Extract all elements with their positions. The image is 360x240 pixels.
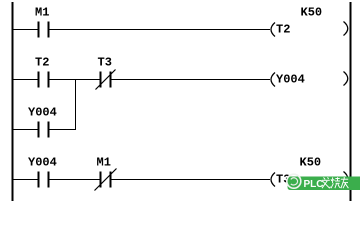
contact M1 (NO): [39, 22, 49, 38]
coil T3 right paren: [344, 172, 348, 186]
contact T3 slash: [96, 70, 116, 90]
rung 3 wire middle: [50, 179, 100, 181]
svg-text:T3: T3: [98, 56, 112, 70]
rung 3 wire left: [13, 179, 38, 181]
svg-text:Y004: Y004: [28, 106, 57, 120]
contact T3 (NC): [101, 72, 111, 88]
rung 2 wire middle: [50, 79, 100, 81]
contact Y004 branch (NO): [39, 122, 49, 138]
contact T2 (NO): [39, 72, 49, 88]
contact Y004 (NO): [39, 172, 49, 188]
watermark CJK glyph 烧: [331, 177, 340, 188]
svg-text:K50: K50: [301, 6, 323, 20]
svg-text:M1: M1: [35, 6, 49, 20]
coil T2 left paren: [271, 23, 275, 37]
watermark CJK glyph 发: [322, 177, 330, 188]
svg-text:K50: K50: [300, 156, 322, 170]
rung 3 wire right: [112, 179, 271, 181]
rung 1 wire right: [50, 29, 271, 31]
branch vertical wire: [75, 80, 77, 131]
rung 1 wire left: [13, 29, 38, 31]
svg-text:Y004: Y004: [28, 156, 57, 170]
left power rail: [12, 2, 14, 201]
svg-text:M1: M1: [97, 156, 111, 170]
rung 2 wire left: [13, 79, 38, 81]
coil T3 left paren: [271, 173, 275, 187]
coil T2 right paren: [344, 22, 348, 36]
rung 2 wire right: [112, 79, 271, 81]
svg-text:T2: T2: [35, 56, 49, 70]
svg-text:T2: T2: [276, 23, 290, 37]
right power rail: [350, 2, 352, 201]
coil Y004 right paren: [344, 72, 348, 86]
coil Y004 left paren: [271, 73, 275, 87]
watermark CJK glyph 友: [341, 177, 349, 188]
contact M1 slash: [95, 169, 117, 191]
branch wire left: [13, 129, 38, 131]
svg-text:PLC: PLC: [304, 179, 324, 190]
svg-text:Y004: Y004: [276, 73, 305, 87]
contact M1 (NC): [101, 172, 111, 188]
watermark logo circle: [287, 174, 301, 188]
watermark badge PLC发烧友: [287, 174, 360, 190]
branch wire right: [50, 129, 77, 131]
